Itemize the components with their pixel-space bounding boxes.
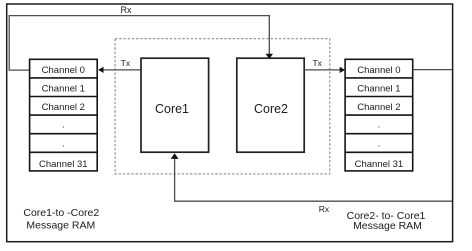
Core2 box (237, 58, 304, 152)
svg-text:Channel 1: Channel 1 (42, 83, 85, 94)
svg-text:Message RAM: Message RAM (353, 220, 422, 232)
arrowhead into right RAM Channel0 (340, 67, 345, 73)
svg-text:Tx: Tx (312, 58, 322, 68)
svg-text:.: . (378, 138, 381, 149)
svg-text:Rx: Rx (121, 5, 132, 15)
svg-text:Channel 31: Channel 31 (355, 159, 404, 170)
arrowhead into Core1 bottom (171, 153, 179, 159)
svg-text:Message RAM: Message RAM (26, 220, 95, 232)
right message RAM table (345, 59, 413, 171)
arrowhead into left RAM Channel0 (98, 67, 103, 73)
svg-text:Channel 0: Channel 0 (42, 65, 85, 76)
right RAM row labels (355, 65, 404, 170)
wire Tx: Core1 to left RAM (103, 69, 142, 71)
svg-text:Channel 0: Channel 0 (357, 65, 400, 76)
svg-text:.: . (378, 120, 381, 131)
svg-text:Channel 2: Channel 2 (357, 102, 400, 113)
dashed subsystem boundary (115, 39, 330, 174)
wire Rx: left RAM Channel0 up over to Core2 (9, 16, 269, 71)
wire Rx: right RAM down and back to Core1 (175, 70, 453, 202)
arrowhead into Core2 top (266, 54, 273, 59)
svg-text:Channel 31: Channel 31 (39, 159, 88, 170)
svg-text:Channel 1: Channel 1 (357, 83, 400, 94)
svg-text:Core2: Core2 (254, 102, 288, 116)
left message RAM table (30, 59, 98, 171)
Core1 box (141, 58, 209, 152)
svg-text:Core1-to -Core2: Core1-to -Core2 (23, 207, 99, 219)
svg-text:.: . (62, 138, 65, 149)
svg-text:Tx: Tx (121, 58, 131, 68)
svg-text:.: . (62, 120, 65, 131)
svg-text:Channel 2: Channel 2 (42, 102, 85, 113)
left RAM row labels (39, 65, 88, 170)
svg-text:Rx: Rx (319, 204, 330, 214)
wire Tx: Core2 to right RAM (304, 69, 340, 71)
svg-text:Core1: Core1 (155, 102, 189, 116)
